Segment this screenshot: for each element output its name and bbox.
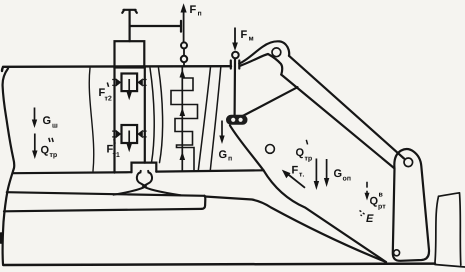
node Fм slot bar left	[230, 61, 232, 69]
force arrow Gш	[32, 108, 37, 129]
wire ground bottom line	[3, 264, 435, 265]
meander coupling outline	[171, 78, 198, 170]
joint circles on force lines	[181, 42, 239, 62]
arrow meander bottom	[180, 152, 186, 161]
wire tower left column	[113, 68, 115, 173]
label Gп	[219, 150, 232, 160]
pivot circle tab top	[404, 158, 413, 167]
clamp marks box1 left	[112, 78, 121, 86]
node link end bar	[180, 21, 182, 32]
circle O blade	[266, 145, 275, 154]
node Fм slot bar right	[238, 61, 240, 69]
label Q'тр	[296, 140, 312, 162]
label F'т1	[107, 139, 119, 157]
wire meander center line	[181, 67, 183, 171]
dashed arrow Qрт	[365, 182, 370, 201]
label Q''тр	[41, 138, 57, 159]
clamp marks box2 right	[137, 130, 146, 138]
arrow meander middle	[180, 108, 186, 117]
cylinder body box	[115, 41, 145, 67]
joint circle Fп upper	[181, 42, 187, 48]
wire beam bottom ground line	[4, 209, 202, 211]
force arrow Fт friction	[282, 170, 305, 188]
pin joint oval	[227, 115, 248, 124]
arrow clamp box2 down	[127, 131, 132, 153]
wire leg column 1	[198, 67, 210, 170]
pivot circle tab bottom	[394, 250, 400, 256]
joint circle Fп lower	[181, 56, 187, 62]
wire main frame line H1	[2, 66, 231, 71]
arm bottom line	[281, 75, 394, 168]
blade bottom edge E1	[264, 170, 387, 262]
wire Fм link to pin	[234, 59, 237, 116]
hook beak upper edge	[239, 41, 289, 63]
force arrow Gоп	[324, 159, 329, 187]
label Gоп	[334, 169, 351, 180]
anchor T support	[122, 10, 137, 41]
wall band right	[435, 193, 465, 267]
arrow clamp box1 down	[127, 79, 132, 100]
dots to point E	[360, 211, 365, 216]
label Qрт	[370, 193, 386, 210]
smudge left edge	[0, 232, 3, 244]
label Fм	[241, 30, 253, 40]
clamp marks box2 left	[112, 130, 121, 138]
wire base line right	[156, 170, 263, 171]
arrow meander top	[180, 69, 186, 78]
wire beam top	[7, 192, 205, 196]
wire body-tower separator	[89, 68, 94, 171]
wire beam right cap	[202, 196, 206, 209]
wire base line left	[14, 172, 132, 173]
wire left body edge	[3, 69, 15, 265]
wire leg column 2	[210, 67, 221, 170]
label Gш	[43, 116, 57, 127]
rail profile	[114, 171, 181, 195]
wire tower right column	[144, 68, 146, 163]
clamp marks box1 right	[137, 78, 146, 86]
force arrow Gп	[219, 121, 224, 145]
blade top edge	[241, 87, 298, 117]
blade left edge	[230, 126, 264, 171]
joint circle Fм	[232, 52, 239, 59]
hook beak lower edge	[240, 54, 282, 75]
label Fп	[190, 5, 201, 15]
force arrow Q''тр	[32, 134, 37, 160]
clamp box F'т2	[122, 74, 138, 92]
force arrow Fп	[181, 3, 187, 66]
bracket tab plate	[393, 149, 429, 261]
label F'т2	[99, 83, 111, 101]
clamp box F'т1	[122, 125, 138, 143]
label Fт blade	[292, 166, 304, 177]
node base bump	[132, 163, 157, 173]
wire top cross link	[130, 25, 181, 27]
arm top line	[289, 56, 404, 159]
force arrow Fм	[232, 28, 238, 52]
wire frame wavy pair	[150, 68, 163, 163]
blade lower edge E2	[205, 197, 386, 263]
force arrow Q'тр	[314, 159, 319, 191]
label point E	[366, 214, 373, 222]
pivot circle hook	[272, 48, 281, 57]
